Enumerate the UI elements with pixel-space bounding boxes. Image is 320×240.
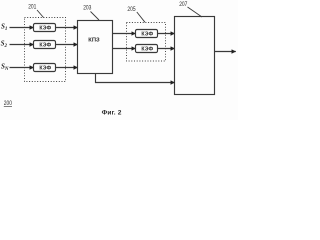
leader line for label 201 <box>37 10 44 18</box>
label 207 <box>179 2 187 9</box>
svg-text:201: 201 <box>28 4 36 11</box>
wire KEF1 to KPZ <box>56 27 78 29</box>
svg-text:КЭФ: КЭФ <box>39 43 51 49</box>
block KEF3 <box>34 64 56 72</box>
svg-text:205: 205 <box>127 7 135 14</box>
svg-text:200: 200 <box>4 101 12 108</box>
svg-text:S1: S1 <box>1 23 7 33</box>
label 200 <box>4 101 12 108</box>
dashed group box 201 <box>25 18 66 82</box>
wire output of 207 <box>215 51 236 53</box>
leader line for label 203 <box>91 12 100 21</box>
svg-text:203: 203 <box>83 5 91 12</box>
svg-text:КЭФ: КЭФ <box>141 32 153 38</box>
label 203 <box>83 5 91 12</box>
label 201 <box>28 4 36 11</box>
wire SN to KEF3 <box>10 67 34 69</box>
wire S2 to KEF2 <box>10 44 34 46</box>
svg-text:КЭФ: КЭФ <box>39 26 51 32</box>
wire KPZ to KEF5 <box>113 48 136 50</box>
wire KEF5 to 207 <box>158 48 175 50</box>
block KEF5 <box>136 45 158 53</box>
wire S1 to KEF1 <box>10 27 34 29</box>
wire KEF3 to KPZ <box>56 67 78 69</box>
label 205 <box>127 7 135 14</box>
dashed group box 205 <box>127 23 166 62</box>
svg-text:КЭФ: КЭФ <box>141 47 153 53</box>
svg-text:207: 207 <box>179 2 187 9</box>
block KPZ 203 <box>78 21 113 74</box>
svg-text:Фиг. 2: Фиг. 2 <box>102 109 122 116</box>
block 207 <box>175 17 215 95</box>
block KEF2 <box>34 41 56 49</box>
svg-text:SN: SN <box>1 63 9 73</box>
svg-text:КПЗ: КПЗ <box>88 38 100 44</box>
wire KPZ bottom to 207 <box>96 74 175 83</box>
block KEF4 <box>136 30 158 38</box>
leader line for label 205 <box>137 12 145 22</box>
leader line for label 207 <box>188 7 203 17</box>
wire KEF2 to KPZ <box>56 44 78 46</box>
block KEF1 <box>34 24 56 32</box>
svg-text:S2: S2 <box>1 40 8 50</box>
svg-text:КЭФ: КЭФ <box>39 66 51 72</box>
wire KEF4 to 207 <box>158 33 175 35</box>
wire KPZ to KEF4 <box>113 33 136 35</box>
